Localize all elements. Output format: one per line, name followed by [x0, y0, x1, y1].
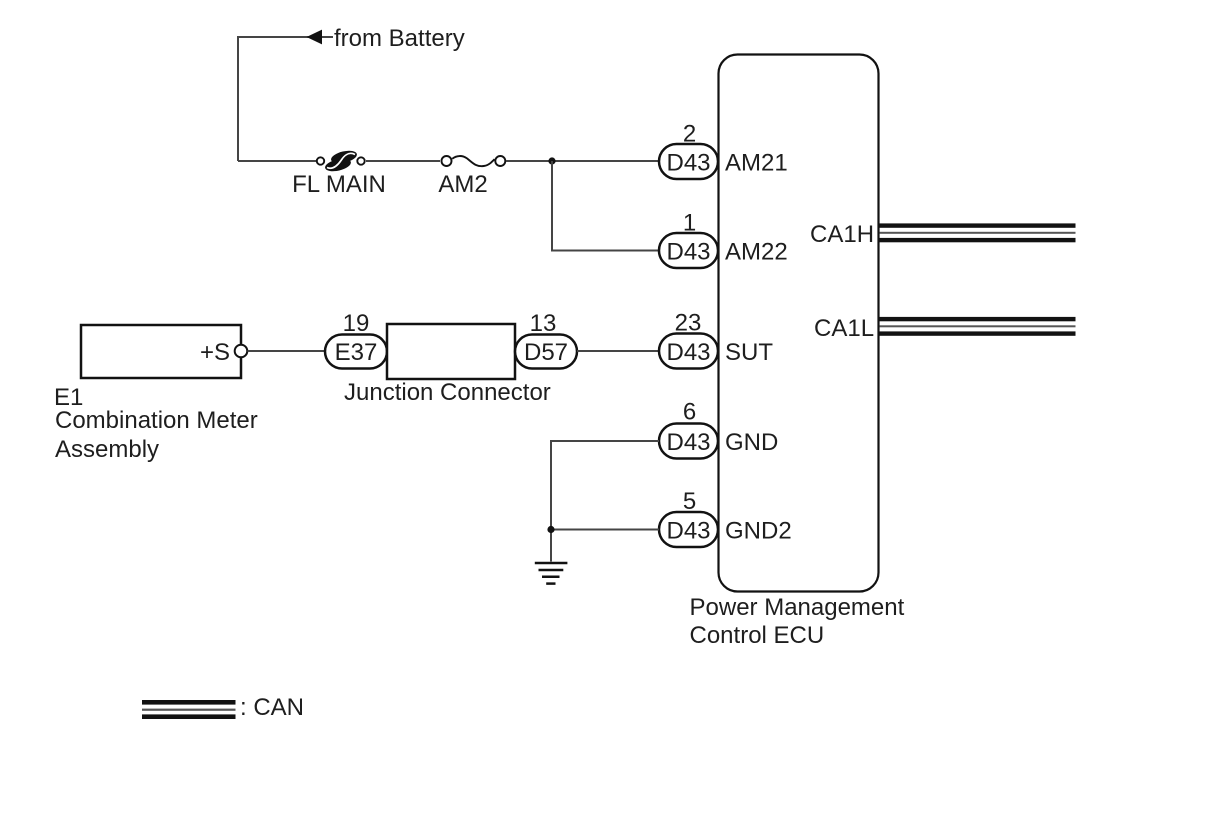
svg-text:+S: +S [200, 339, 230, 366]
svg-text:AM2: AM2 [438, 171, 487, 198]
svg-text:from Battery: from Battery [334, 25, 465, 52]
connector box E1 [81, 325, 241, 378]
terminal +S [200, 339, 247, 366]
wire GND2 [551, 529, 659, 531]
wire [238, 160, 317, 162]
svg-text:Assembly: Assembly [55, 436, 159, 463]
svg-text:: CAN: : CAN [240, 694, 304, 721]
node junction on battery wire [548, 157, 555, 164]
connector D57 pin 13 [515, 310, 577, 369]
svg-text:1: 1 [683, 210, 696, 237]
label Power Management Control ECU [690, 594, 905, 649]
connector E37 pin 19 [325, 310, 387, 369]
connector D43 pin 23 SUT [659, 310, 773, 369]
svg-text:Control ECU: Control ECU [690, 622, 825, 649]
svg-text:CA1H: CA1H [810, 221, 874, 248]
svg-text:FL MAIN: FL MAIN [292, 171, 386, 198]
svg-text:23: 23 [675, 310, 702, 337]
legend CAN bus symbol [142, 700, 236, 719]
ground [535, 563, 568, 584]
connector D43 pin 6 GND [659, 399, 778, 459]
svg-text:5: 5 [683, 488, 696, 515]
junction connector box [344, 324, 551, 406]
svg-text:Power Management: Power Management [690, 594, 905, 621]
svg-text:AM21: AM21 [725, 149, 788, 176]
svg-text:D43: D43 [666, 238, 710, 265]
ECU box Power Management Control ECU [719, 55, 879, 592]
svg-text:GND: GND [725, 429, 778, 456]
svg-text:GND2: GND2 [725, 517, 792, 544]
svg-text:D43: D43 [666, 339, 710, 366]
wire [506, 160, 659, 162]
svg-text:D43: D43 [666, 429, 710, 456]
svg-text:13: 13 [530, 310, 557, 337]
svg-text:D57: D57 [524, 339, 568, 366]
svg-text:D43: D43 [666, 149, 710, 176]
node junction ground [547, 526, 554, 533]
wire to pin 1 [552, 161, 659, 251]
svg-text:2: 2 [683, 121, 696, 148]
svg-text:D43: D43 [666, 517, 710, 544]
wire [248, 350, 326, 352]
connector D43 pin 5 GND2 [659, 488, 792, 547]
wire GND [551, 441, 659, 562]
fuse AM2 [442, 156, 506, 166]
connector D43 pin 2 AM21 [659, 121, 788, 180]
svg-text:CA1L: CA1L [814, 315, 874, 342]
CAN bus CA1H [880, 223, 1076, 242]
arrow from Battery [307, 30, 323, 45]
svg-text:SUT: SUT [725, 339, 773, 366]
fusible link FL MAIN [317, 149, 365, 174]
svg-text:19: 19 [343, 310, 370, 337]
label E1 Combination Meter Assembly [54, 384, 258, 463]
svg-text:Combination Meter: Combination Meter [55, 407, 258, 434]
wire [577, 350, 659, 352]
wire battery feed (horizontal + vertical drop) [238, 37, 333, 161]
wire [366, 160, 440, 162]
connector D43 pin 1 AM22 [659, 210, 788, 269]
svg-text:AM22: AM22 [725, 238, 788, 265]
svg-text:Junction Connector: Junction Connector [344, 379, 551, 406]
svg-text:6: 6 [683, 399, 696, 426]
svg-text:E37: E37 [335, 339, 378, 366]
CAN bus CA1L [880, 317, 1076, 336]
